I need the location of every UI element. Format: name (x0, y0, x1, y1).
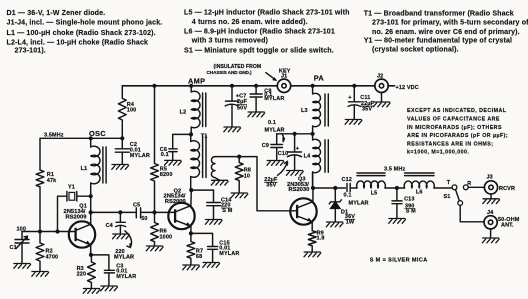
svg-text:PA: PA (314, 73, 325, 82)
switch S1 (452, 185, 457, 190)
svg-text:0.1: 0.1 (161, 152, 169, 158)
resistor R7 (187, 233, 195, 264)
svg-text:3.5 MHz: 3.5 MHz (384, 166, 405, 172)
wire: R throw to J3 (468, 186, 484, 188)
svg-text:L6: L6 (416, 190, 423, 196)
svg-text:L5: L5 (371, 190, 378, 196)
svg-text:10: 10 (244, 173, 250, 179)
capacitor C1 (variable, 100 pF) (15, 232, 29, 264)
node: L2 / T1 / C6 junction (189, 132, 193, 136)
resistor R4 (118, 86, 126, 139)
wire: J2 to +12 VDC stub (388, 85, 394, 87)
svg-text:T: T (447, 180, 451, 186)
svg-text:J4: J4 (487, 210, 494, 216)
jack J2 (+12 VDC) (375, 79, 388, 92)
svg-text:Y1 — 80-meter fundamental type: Y1 — 80-meter fundamental type of crysta… (364, 37, 512, 45)
node: L3/L4 junction (311, 132, 315, 136)
svg-text:273-101).: 273-101). (15, 47, 46, 55)
svg-text:0.1: 0.1 (344, 193, 352, 199)
svg-text:L1: L1 (81, 166, 88, 172)
caption column 2 (184, 9, 350, 55)
svg-text:k=1000, M=1,000,000.: k=1000, M=1,000,000. (407, 150, 469, 156)
svg-text:C13: C13 (404, 197, 414, 203)
wire: OSC top rail (40, 138, 122, 170)
svg-text:4 turns no. 26 enam. wire adde: 4 turns no. 26 enam. wire added). (192, 18, 308, 26)
capacitor C2 (115, 138, 129, 164)
svg-text:50V: 50V (237, 105, 247, 111)
svg-text:MYLAR: MYLAR (219, 251, 239, 257)
svg-text:R: R (467, 181, 471, 187)
caption column 3 (364, 9, 528, 53)
svg-text:J1: J1 (281, 73, 287, 79)
wire: L6 to switch (434, 187, 452, 189)
resistor R3 (88, 255, 96, 288)
svg-text:+12 VDC: +12 VDC (396, 85, 419, 91)
caption column 1 (7, 9, 163, 55)
svg-text:J2: J2 (377, 74, 383, 80)
wire: Q2 collector to T1 bottom junction (190, 190, 192, 206)
svg-text:RCVR: RCVR (499, 186, 515, 192)
svg-text:MYLAR: MYLAR (130, 153, 150, 159)
svg-text:1000: 1000 (160, 234, 173, 240)
svg-text:100: 100 (17, 227, 27, 233)
capacitor C5 (136, 208, 169, 218)
svg-text:2µF: 2µF (237, 99, 247, 105)
T1 secondary winding (211, 157, 219, 181)
svg-text:MYLAR: MYLAR (116, 274, 136, 280)
svg-text:RS2009: RS2009 (165, 199, 187, 205)
wire: collector junction to C14 (191, 189, 213, 191)
svg-text:220: 220 (77, 272, 87, 278)
svg-text:S1 — Miniature spdt toggle or: S1 — Miniature spdt toggle or slide swit… (184, 46, 334, 54)
svg-text:50: 50 (141, 216, 147, 222)
svg-text:Y1: Y1 (68, 185, 75, 191)
units note block (407, 108, 508, 156)
svg-text:MYLAR: MYLAR (114, 255, 134, 261)
wire: arrow to J1 (266, 73, 276, 80)
jack J1 (KEY) (277, 79, 290, 92)
svg-text:C5: C5 (133, 203, 140, 209)
transistor Q1 (69, 221, 95, 247)
wire: PA decoupling rail (277, 133, 313, 135)
svg-text:S M: S M (406, 208, 416, 214)
resistor R6 (151, 212, 159, 245)
inductor L1 (91, 138, 100, 196)
capacitor C10 (electrolytic 22uF) (287, 134, 301, 171)
wire: Q1 collector up / emitter down (90, 196, 92, 255)
svg-text:35V: 35V (362, 107, 372, 113)
svg-text:L6 — 8.9-µH inductor (Radio Sh: L6 — 8.9-µH inductor (Radio Shack 273-10… (184, 28, 335, 36)
svg-text:L5 — 12-µH inductor (Radio Sha: L5 — 12-µH inductor (Radio Shack 273-101… (184, 9, 350, 17)
wire: Q2 emitter (190, 226, 192, 233)
capacitor C13 (392, 188, 402, 218)
svg-text:S M = SILVER MICA: S M = SILVER MICA (370, 258, 428, 264)
svg-text:C4: C4 (106, 223, 114, 229)
svg-text:L2: L2 (180, 109, 187, 115)
svg-text:RS2030: RS2030 (288, 187, 309, 193)
wire: PA bus J1 to J2 (291, 85, 375, 87)
capacitor C4 (116, 212, 126, 233)
svg-text:273-101 for primary, with 5-tu: 273-101 for primary, with 5-turn seconda… (372, 19, 528, 27)
capacitor C12 (347, 184, 357, 192)
svg-text:47k: 47k (47, 178, 57, 184)
svg-text:S1: S1 (444, 194, 451, 200)
inductor L5 (357, 173, 385, 176)
svg-text:(crystal socket optional).: (crystal socket optional). (372, 45, 459, 53)
capacitor C11 (electrolytic 22uF) (348, 86, 361, 120)
svg-text:T1 — Broadband transformer (Ra: T1 — Broadband transformer (Radio Shack (364, 9, 514, 17)
svg-text:C12: C12 (342, 177, 352, 183)
node: bus junction dots (152, 84, 156, 88)
capacitor C7 (electrolytic) (225, 86, 238, 127)
inductor L2 (191, 86, 200, 135)
svg-text:MYLAR: MYLAR (264, 96, 284, 102)
transistor Q3 (290, 198, 316, 224)
svg-text:100: 100 (127, 108, 137, 114)
svg-text:C9: C9 (262, 143, 269, 149)
capacitor C14 (207, 190, 221, 219)
svg-text:68: 68 (196, 254, 202, 260)
svg-text:with 3 turns removed): with 3 turns removed) (191, 37, 269, 45)
svg-text:RESISTANCES ARE IN OHMS;: RESISTANCES ARE IN OHMS; (407, 142, 493, 148)
svg-text:S M: S M (222, 208, 232, 214)
inductor L6 (405, 173, 435, 176)
zener diode D1 (334, 188, 336, 221)
svg-text:L3: L3 (301, 108, 308, 114)
wire: Q3 collector junction (313, 172, 346, 202)
svg-text:CHASSIS AND GND.): CHASSIS AND GND.) (207, 70, 253, 75)
svg-text:ARE IN PICOFARADS (pF OR µµF);: ARE IN PICOFARADS (pF OR µµF); (407, 133, 508, 139)
svg-text:no. 26 enam. wire over C6 end: no. 26 enam. wire over C6 end of primary… (372, 28, 520, 36)
resistor R5 (151, 86, 159, 213)
svg-text:AMP: AMP (188, 76, 205, 85)
svg-text:4700: 4700 (46, 254, 59, 260)
wire: arrow from 22uF label to C10 (278, 161, 288, 175)
svg-text:MYLAR: MYLAR (265, 128, 285, 134)
svg-text:D1 — 36-V, 1-W Zener diode.: D1 — 36-V, 1-W Zener diode. (7, 9, 106, 17)
wire: lower throw to J4 (460, 205, 484, 221)
svg-text:1.8: 1.8 (317, 236, 325, 242)
svg-text:EXCEPT AS INDICATED, DECIMAL: EXCEPT AS INDICATED, DECIMAL (407, 108, 507, 114)
wire: arrow from 220 MYLAR label to C4 (125, 231, 132, 248)
resistor R1 (36, 170, 44, 232)
svg-text:0.1: 0.1 (268, 120, 276, 126)
capacitor C9 (271, 134, 283, 161)
capacitor C6 (169, 134, 191, 160)
resistor R2 (36, 232, 44, 272)
svg-text:3.5MHz: 3.5MHz (44, 132, 64, 138)
svg-text:L2-L4, incl. — 10-µH choke (Ra: L2-L4, incl. — 10-µH choke (Radio Shack (7, 38, 149, 46)
svg-text:MYLAR: MYLAR (349, 201, 369, 207)
svg-text:VALUES OF CAPACITANCE ARE: VALUES OF CAPACITANCE ARE (407, 116, 500, 122)
svg-text:L4: L4 (304, 154, 311, 160)
wire: arrow from 0.1 MYLAR to C9 (282, 134, 285, 142)
capacitor C8 (250, 86, 262, 112)
wire: Q1 collector to C5 rail (91, 211, 137, 213)
node: filter midpoint (385, 187, 405, 189)
jack J3 (RCVR) (484, 181, 497, 194)
transistor Q2 (168, 203, 194, 229)
svg-text:+: + (348, 95, 351, 101)
resistor R9 (308, 222, 316, 252)
svg-text:8200: 8200 (160, 172, 173, 178)
svg-text:ANT.: ANT. (501, 223, 514, 229)
svg-text:IN MICROFARADS (µF); OTHERS: IN MICROFARADS (µF); OTHERS (407, 125, 502, 131)
inductor L3 (313, 86, 321, 134)
svg-text:OSC: OSC (89, 129, 106, 138)
wire: Q1 base rail (22, 231, 69, 233)
resistor R8 (235, 157, 243, 193)
capacitor C3 (91, 255, 114, 286)
svg-text:RS2009: RS2009 (66, 215, 88, 221)
svg-text:C10: C10 (278, 151, 288, 157)
node: OSC rail dots (89, 136, 93, 140)
svg-text:35V: 35V (266, 183, 276, 189)
svg-text:J1-J4, incl. — Single-hole mou: J1-J4, incl. — Single-hole mount phono j… (7, 19, 163, 27)
svg-text:+: + (296, 146, 299, 152)
svg-text:L1 — 100-µH choke (Radio Shack: L1 — 100-µH choke (Radio Shack 273-102). (7, 29, 156, 37)
wire: T1 secondary to Q3 base (215, 157, 291, 211)
node: crystal/L1/collector junction (89, 194, 93, 198)
capacitor C15 (191, 233, 218, 262)
jack J4 (ANT) (484, 216, 497, 229)
node: Q1 emitter junction (89, 253, 93, 257)
svg-text:J3: J3 (487, 175, 493, 181)
svg-text:1W: 1W (346, 219, 355, 225)
inductor L4 (313, 134, 321, 188)
wire: +12 keyed bus (AMP side) (122, 85, 277, 87)
crystal Y1 (58, 192, 91, 232)
svg-text:C1: C1 (10, 245, 17, 251)
